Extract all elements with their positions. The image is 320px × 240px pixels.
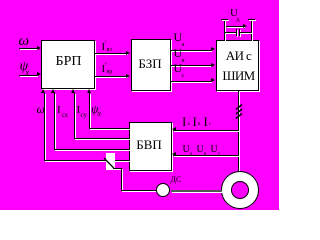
motor rotor inner circle	[231, 181, 249, 199]
capacitor C plate 2	[239, 29, 240, 36]
tacho ДС circle	[156, 183, 170, 197]
capacitor C wire right	[240, 32, 251, 33]
label Ud	[230, 8, 238, 19]
sensor wire voltages (to БВП)	[173, 155, 239, 156]
feedback wire psi-x horizontal	[89, 128, 129, 129]
feedback wire psi-x vertical	[89, 93, 90, 128]
label omega feedback	[37, 103, 45, 115]
feedback wire Isa vertical	[54, 93, 55, 150]
label Uc	[174, 62, 183, 74]
wire input psi-x	[19, 75, 37, 76]
wire down to tacho line	[121, 168, 122, 190]
wire БЗП to АИ line Ua	[171, 50, 211, 51]
label Isa	[57, 105, 61, 116]
label Isv	[77, 105, 81, 116]
wire БРП to БЗП line 1	[95, 53, 127, 54]
wire to tacho	[121, 190, 157, 191]
feedback wire speed horizontal	[44, 160, 129, 161]
voltage sensor labels Ua Uv Uc	[183, 145, 190, 155]
label psi-x feedback	[91, 103, 98, 115]
capacitor C plate 1	[236, 29, 237, 36]
motor M outer circle	[221, 171, 259, 209]
label Ua	[174, 31, 183, 43]
block U4 БВП	[129, 122, 172, 172]
feedback wire Isv vertical	[74, 93, 75, 139]
block U1 БРП	[41, 40, 95, 89]
label omega (speed setpoint)	[19, 34, 30, 49]
wire АИ to motor (three-phase drop)	[238, 91, 239, 173]
wire stub after switch	[113, 168, 121, 169]
white patch	[106, 153, 115, 170]
switch diagonal	[102, 155, 117, 171]
label ДС	[171, 176, 182, 184]
current sensor labels Ia Iv Ic	[182, 115, 186, 128]
DC link right terminal cap	[248, 19, 255, 20]
label psi x	[20, 60, 29, 74]
three-phase break mark	[235, 103, 243, 121]
DC link right rail	[251, 19, 252, 40]
wire БЗП to АИ line Uv	[171, 65, 211, 66]
DC link left terminal cap	[221, 19, 228, 20]
block U3 АИ с ШИМ	[216, 40, 259, 91]
label I'vz	[102, 42, 106, 53]
block U2 БЗП	[131, 39, 171, 91]
feedback wire speed vertical	[44, 93, 45, 160]
feedback wire Isv horizontal	[74, 138, 129, 139]
Ud arrow wire	[226, 26, 244, 27]
label I'vr	[102, 64, 106, 75]
sensor wire currents (to БВП)	[173, 130, 239, 131]
label Uv	[174, 47, 183, 59]
capacitor C wire left	[224, 32, 236, 33]
wire tacho to motor	[171, 190, 222, 192]
wire БЗП to АИ line Uc	[171, 81, 211, 82]
DC link left rail	[224, 19, 225, 40]
wire БРП to БЗП line 2	[95, 76, 127, 77]
wire input omega	[19, 48, 37, 49]
feedback wire Isa horizontal	[54, 149, 129, 150]
